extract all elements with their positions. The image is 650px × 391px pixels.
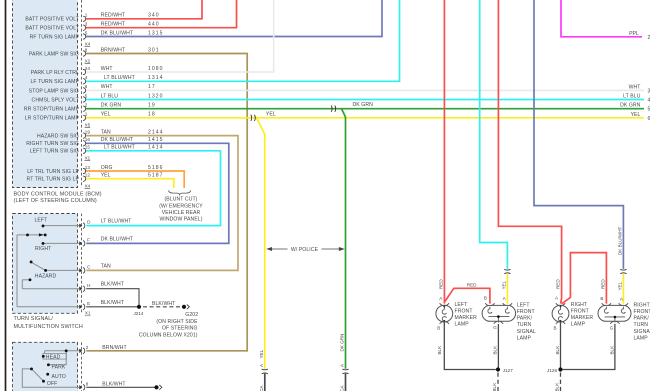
svg-text:TURN: TURN (634, 322, 649, 328)
headlamp switch contact dots (30, 349, 68, 382)
svg-text:DK BLU/WHT: DK BLU/WHT (618, 226, 623, 255)
svg-text:YEL: YEL (259, 349, 264, 358)
svg-text:J214: J214 (134, 311, 144, 316)
svg-text:13: 13 (85, 165, 91, 170)
left marker bulb (442, 306, 446, 321)
wire LT BLU/WHT 1314 (86, 0, 400, 81)
wire DK BLU/WHT down right (534, 0, 623, 269)
wire LT BLU/WHT 1414 (86, 151, 221, 226)
svg-text:HAZARD SW SIG: HAZARD SW SIG (37, 134, 79, 140)
svg-text:BATT POSITIVE VOLT: BATT POSITIVE VOLT (25, 26, 79, 32)
wire LT BLU/WHT down to connector left (480, 0, 508, 269)
right park lamp terminal cups (602, 303, 628, 305)
svg-text:LF TRL TURN SIG LP: LF TRL TURN SIG LP (27, 169, 79, 175)
svg-text:LT BLU/WHT: LT BLU/WHT (101, 219, 132, 225)
svg-text:VEHICLE REAR: VEHICLE REAR (162, 210, 201, 216)
inline connector blue-yellow right (620, 269, 626, 274)
BCM caption (14, 191, 102, 204)
svg-text:1415: 1415 (148, 137, 164, 143)
svg-text:RF TURN SIG LAMP: RF TURN SIG LAMP (30, 34, 80, 40)
svg-text:16: 16 (85, 137, 91, 142)
svg-text:SIGNAL: SIGNAL (634, 329, 650, 335)
svg-text:OF STEERING: OF STEERING (162, 326, 198, 332)
svg-text:LT BLU/WHT: LT BLU/WHT (104, 75, 135, 81)
turn signal switch box (13, 214, 78, 314)
svg-text:FRONT: FRONT (517, 309, 535, 315)
left park lamp caption (517, 302, 536, 341)
svg-text:DK BLU/WHT: DK BLU/WHT (101, 137, 133, 143)
inline connector on YEL 18 (251, 115, 255, 121)
right marker terminal cup top (556, 303, 565, 305)
svg-text:PARK/: PARK/ (517, 316, 533, 322)
svg-text:1: 1 (85, 112, 88, 117)
headlamp switch box (13, 342, 78, 391)
svg-text:X1: X1 (85, 311, 91, 316)
svg-text:YEL: YEL (501, 280, 506, 289)
svg-text:HEAD: HEAD (46, 354, 61, 360)
switch row wire labels (101, 219, 176, 307)
wire PPL top right (561, 0, 642, 37)
wire BLK below yel connector (264, 374, 266, 391)
wire WHT 17 (86, 89, 644, 91)
wire BLK dashed below J126 (560, 373, 562, 391)
left marker terminal cup bottom (440, 322, 449, 324)
svg-text:DK GRN: DK GRN (339, 334, 344, 352)
svg-text:YEL: YEL (266, 111, 276, 117)
svg-text:B: B (554, 325, 557, 330)
svg-text:19: 19 (148, 103, 156, 109)
svg-text:LEFT: LEFT (455, 302, 468, 308)
svg-text:2: 2 (85, 103, 88, 108)
BCM connector face dashed line (80, 0, 82, 188)
svg-text:LEFT TURN SW SIG: LEFT TURN SW SIG (30, 149, 79, 155)
svg-text:1: 1 (85, 13, 88, 18)
BCM pin numbers and wire name/number labels (85, 13, 164, 179)
svg-text:MARKER: MARKER (571, 315, 594, 321)
svg-text:ORG: ORG (101, 165, 113, 171)
svg-text:12: 12 (85, 173, 91, 178)
svg-text:X5: X5 (85, 122, 91, 127)
svg-text:DK GRN: DK GRN (353, 102, 374, 108)
svg-text:RT TRL TURN SIG LP: RT TRL TURN SIG LP (27, 177, 80, 183)
blunt cut brace (169, 191, 191, 195)
svg-text:LT BLU/WHT: LT BLU/WHT (104, 145, 135, 151)
wire BLK/WHT dashed to G202 (143, 306, 181, 308)
svg-text:17: 17 (148, 84, 156, 90)
left marker lamp terminal cup top (440, 303, 449, 305)
switch contact dots (26, 224, 47, 281)
svg-text:B: B (484, 296, 487, 301)
svg-text:LAMP: LAMP (571, 322, 586, 328)
splice J127 (496, 367, 500, 371)
switch wiper arrow (39, 233, 44, 236)
svg-text:BLK: BLK (492, 382, 497, 391)
svg-text:BLK: BLK (555, 382, 560, 391)
wire BLK right marker down (560, 322, 562, 370)
svg-text:2: 2 (86, 345, 89, 350)
right edge labels (620, 84, 641, 117)
svg-text:CA: CA (259, 384, 264, 391)
right park lamp bulbs (604, 307, 625, 323)
svg-text:LF TURN SIG LAMP: LF TURN SIG LAMP (31, 79, 80, 85)
left park lamp bulbs (488, 307, 510, 323)
wire TAN 2144 (86, 136, 238, 271)
svg-text:19: 19 (85, 129, 91, 134)
svg-text:1315: 1315 (148, 30, 164, 36)
svg-text:CA: CA (339, 384, 344, 391)
inline connector DK GRN vertical bottom (342, 369, 348, 374)
svg-text:RED/WHT: RED/WHT (101, 13, 125, 19)
left park lamp terminal cups (485, 303, 512, 305)
wire YEL 18 (86, 117, 644, 119)
right park terminal cup bottom (610, 322, 619, 324)
svg-text:COLUMN BELOW X201): COLUMN BELOW X201) (139, 332, 198, 338)
left park lamp splice dot (497, 315, 500, 318)
svg-text:YEL: YEL (101, 173, 111, 179)
right edge number stubs (648, 88, 650, 121)
inline connector on DK GRN 19 (331, 106, 335, 112)
switch caption (14, 316, 83, 330)
svg-text:TURN SIGNAL/: TURN SIGNAL/ (14, 316, 54, 322)
svg-text:BLK/WHT: BLK/WHT (102, 381, 125, 387)
svg-text:DK BLU/WHT: DK BLU/WHT (101, 236, 133, 242)
svg-text:BLK: BLK (437, 345, 442, 355)
svg-text:BLK: BLK (492, 345, 497, 355)
svg-text:BRN/WHT: BRN/WHT (101, 47, 125, 53)
svg-text:PPL: PPL (629, 31, 639, 37)
right marker lamp caption (571, 302, 594, 328)
svg-text:BLK: BLK (555, 345, 560, 355)
BCM connector X labels (85, 41, 91, 188)
svg-text:TAN: TAN (101, 263, 111, 269)
svg-text:5: 5 (85, 30, 88, 35)
svg-text:RED: RED (467, 282, 477, 287)
svg-text:5186: 5186 (148, 165, 164, 171)
svg-text:LAMP: LAMP (634, 335, 649, 341)
svg-text:W/ POLICE: W/ POLICE (291, 247, 319, 253)
switch pin arrows and arcs (79, 223, 85, 310)
wire BLK right park G down (563, 324, 615, 370)
svg-text:LAMP: LAMP (455, 322, 470, 328)
page border left (5, 0, 7, 391)
svg-text:RIGHT TURN SW SIG: RIGHT TURN SW SIG (26, 141, 79, 147)
svg-text:YEL: YEL (101, 112, 111, 118)
svg-text:RED: RED (600, 279, 605, 289)
svg-text:(BLUNT CUT): (BLUNT CUT) (165, 197, 198, 203)
wire BLK/WHT pin E (86, 306, 139, 308)
svg-text:G202: G202 (185, 312, 198, 318)
svg-text:BLK: BLK (610, 345, 615, 355)
headlamp switch connector face (80, 342, 82, 391)
svg-text:DK GRN: DK GRN (101, 103, 122, 109)
svg-text:BLK/WHT: BLK/WHT (152, 301, 175, 307)
wire BLK/WHT pin H (86, 289, 139, 307)
svg-text:18: 18 (148, 112, 156, 118)
svg-text:YEL: YEL (631, 112, 641, 118)
wire RED/WHT 440 (86, 0, 237, 28)
headlamp switch internal wires (22, 351, 79, 388)
svg-text:(ON RIGHT SIDE: (ON RIGHT SIDE (156, 319, 198, 325)
wire BLK/WHT pin 8 to ground (86, 386, 155, 388)
left front park/turn signal lamp body (482, 305, 515, 321)
switch pin letters (87, 220, 91, 306)
svg-text:FRONT: FRONT (634, 309, 650, 315)
svg-text:BLK/WHT: BLK/WHT (101, 282, 124, 288)
headlamp switch position labels (46, 354, 66, 387)
svg-text:B: B (437, 325, 440, 330)
svg-text:1320: 1320 (148, 93, 164, 99)
svg-text:X2: X2 (85, 58, 91, 63)
svg-text:MULTIFUNCTION SWITCH: MULTIFUNCTION SWITCH (14, 324, 83, 330)
svg-text:MARKER: MARKER (455, 315, 478, 321)
wire YEL 18 branch down (257, 118, 265, 369)
svg-text:LR STOP/TURN LAMP: LR STOP/TURN LAMP (25, 116, 80, 122)
svg-text:LEFT: LEFT (517, 302, 530, 308)
svg-text:RED: RED (438, 279, 443, 289)
svg-text:1080: 1080 (148, 66, 164, 72)
svg-text:FRONT: FRONT (455, 309, 473, 315)
svg-text:5: 5 (85, 93, 88, 98)
svg-text:PARK LP RLY CTRL: PARK LP RLY CTRL (31, 70, 79, 76)
splice J126 (558, 367, 562, 371)
left park terminal cup bottom (494, 322, 503, 324)
G202 caption (139, 312, 198, 338)
wire YEL 5187 (86, 179, 174, 188)
wire ORG 5186 (86, 171, 184, 188)
svg-text:2144: 2144 (148, 129, 164, 135)
left marker lamp caption (455, 302, 478, 328)
turn signal switch connector face (80, 214, 82, 314)
svg-text:BLK/WHT: BLK/WHT (101, 300, 124, 306)
svg-text:5187: 5187 (148, 173, 164, 179)
right front marker lamp body (552, 305, 569, 322)
svg-text:BODY CONTROL MODULE (BCM): BODY CONTROL MODULE (BCM) (14, 191, 102, 197)
ground at pin 8 wire end (154, 385, 158, 389)
headlamp pin arrows and arcs (79, 348, 85, 390)
BCM pin labels left column (24, 17, 80, 183)
svg-text:8: 8 (85, 47, 88, 52)
svg-text:DK BLU/WHT: DK BLU/WHT (101, 30, 133, 36)
wire YEL into right park lamp A (622, 274, 624, 304)
svg-text:DK GRN: DK GRN (620, 103, 641, 109)
svg-text:RR STOP/TURN LAMP: RR STOP/TURN LAMP (24, 107, 80, 113)
svg-text:TAN: TAN (101, 129, 111, 135)
svg-text:6: 6 (85, 84, 88, 89)
headlamp pin labels (86, 345, 89, 387)
svg-text:PARK: PARK (52, 365, 66, 371)
svg-text:BRN/WHT: BRN/WHT (102, 345, 126, 351)
wire BRN/WHT 301 (86, 54, 247, 351)
svg-text:STOP LAMP SW SIG: STOP LAMP SW SIG (29, 88, 79, 94)
wire BLK left marker down (444, 322, 496, 370)
svg-text:340: 340 (148, 13, 160, 19)
svg-text:G: G (493, 325, 497, 330)
svg-text:HAZARD: HAZARD (35, 273, 57, 279)
svg-text:1314: 1314 (148, 75, 164, 81)
ground G202 (182, 305, 186, 309)
W/ POLICE annotation (267, 248, 343, 251)
svg-text:RED: RED (556, 279, 561, 289)
wire DK BLU/WHT 1415 (86, 143, 229, 243)
svg-text:YEL: YEL (617, 281, 622, 290)
inline connector YEL vertical bottom (262, 369, 268, 374)
wire YEL into left park lamp A (506, 274, 508, 304)
wire RED down to left marker lamp (443, 0, 445, 304)
svg-text:TURN: TURN (517, 322, 532, 328)
right park lamp splice dot (614, 316, 617, 319)
svg-text:LT BLU: LT BLU (101, 93, 119, 99)
wire DK GRN 19 branch down (342, 109, 346, 369)
svg-text:AUTO: AUTO (52, 374, 66, 380)
svg-text:LEFT: LEFT (35, 218, 48, 224)
inline connector cyan-yellow left (504, 269, 510, 274)
svg-text:(LEFT OF STEERING COLUMN): (LEFT OF STEERING COLUMN) (14, 198, 97, 204)
svg-text:PARK/: PARK/ (634, 316, 650, 322)
svg-text:24: 24 (85, 66, 91, 71)
svg-text:RIGHT: RIGHT (35, 246, 51, 252)
wire BLK dashed below J127 (497, 373, 499, 391)
svg-text:4: 4 (85, 75, 88, 80)
wire LT BLU 1320 (86, 99, 644, 101)
svg-text:PARK LAMP SW SIG: PARK LAMP SW SIG (29, 51, 79, 57)
svg-text:WHT: WHT (101, 66, 113, 72)
svg-text:LAMP: LAMP (517, 335, 532, 341)
splice J214 (137, 305, 141, 309)
blunt cut caption (159, 197, 203, 223)
svg-text:(W/ EMERGENCY: (W/ EMERGENCY (159, 203, 203, 209)
wire RED bridge right lamps (562, 253, 607, 304)
svg-text:WHT: WHT (101, 84, 113, 90)
svg-text:X4: X4 (85, 183, 91, 188)
svg-text:CHMSL SPLY VOLT: CHMSL SPLY VOLT (32, 97, 79, 103)
BCM box body (13, 0, 78, 188)
svg-text:3: 3 (85, 22, 88, 27)
svg-text:8: 8 (86, 381, 89, 386)
svg-text:J127: J127 (503, 368, 513, 373)
svg-text:G: G (610, 325, 614, 330)
wire DK GRN 19 (86, 108, 644, 110)
svg-text:X4: X4 (85, 41, 91, 46)
svg-text:15: 15 (85, 145, 91, 150)
wire RED down to right marker lamp (498, 0, 561, 304)
wire BLK below grn connector (345, 374, 347, 391)
svg-text:X1: X1 (85, 155, 91, 160)
switch internal wires (17, 226, 80, 307)
right front park/turn signal lamp body (598, 305, 631, 321)
BCM pin arcs (83, 16, 86, 181)
svg-text:440: 440 (148, 22, 160, 28)
svg-text:RIGHT: RIGHT (571, 302, 587, 308)
wire DK BLU/WHT 1315 (86, 0, 382, 37)
wire RED bridge left lamps (445, 288, 490, 303)
svg-text:WHT: WHT (629, 84, 641, 90)
svg-text:F: F (87, 238, 90, 243)
svg-text:FRONT: FRONT (571, 309, 589, 315)
svg-text:RED/WHT: RED/WHT (101, 22, 125, 28)
svg-text:B: B (600, 296, 603, 301)
svg-text:WINDOW PANEL): WINDOW PANEL) (159, 216, 202, 222)
svg-text:LT BLU: LT BLU (623, 94, 641, 100)
svg-text:SIGNAL: SIGNAL (517, 329, 536, 335)
svg-text:BATT POSITIVE VOLT: BATT POSITIVE VOLT (25, 17, 79, 23)
svg-text:E: E (87, 301, 90, 306)
right park lamp caption (634, 302, 650, 341)
left front marker lamp body (436, 305, 453, 322)
right marker bulb (558, 306, 562, 321)
svg-text:OFF: OFF (47, 381, 58, 387)
svg-text:RIGHT: RIGHT (634, 302, 650, 308)
svg-text:1414: 1414 (148, 145, 164, 151)
wire RED/WHT 340 (86, 0, 202, 19)
right marker terminal cup bottom (556, 322, 565, 324)
svg-text:301: 301 (148, 47, 160, 53)
wire BLK left park G down (497, 324, 499, 370)
svg-text:H: H (87, 283, 90, 288)
wire WHT 1080 (86, 0, 274, 72)
svg-text:J126: J126 (547, 368, 557, 373)
HEAD position box (43, 354, 67, 360)
